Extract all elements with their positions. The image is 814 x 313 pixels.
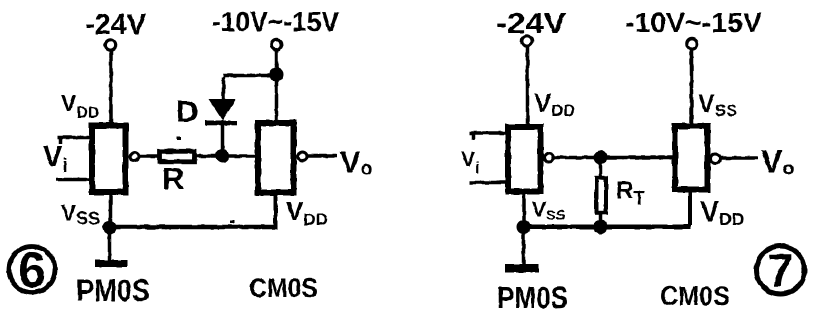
terminal -24V (left): [105, 40, 115, 50]
junction VSS node (left fig): [103, 221, 117, 235]
terminal -24V (right): [522, 36, 532, 46]
wire Vi input top: [58, 136, 92, 140]
junction VSS node (right fig): [517, 220, 531, 234]
wire RT bottom to junction: [599, 213, 603, 222]
wire node B down to RT: [599, 163, 603, 178]
inverter U3 PMOS body: [508, 127, 541, 192]
inverter U1 PMOS body: [92, 126, 126, 193]
wire node A up to diode cathode: [221, 124, 225, 151]
wire terminal to CMOS top (right): [690, 50, 694, 126]
wire -24V terminal to PMOS top (right): [526, 47, 530, 127]
junction node A: [216, 149, 230, 163]
terminal -10V~-15V (right): [687, 39, 697, 49]
inversion bubble U2 output: [298, 152, 307, 161]
svg-text:R: R: [162, 161, 184, 196]
junction node B: [594, 151, 608, 165]
figure number 6 circle: [9, 247, 55, 293]
wire bottom rail (left fig): [109, 225, 278, 230]
wire U2 output to Vo: [308, 154, 338, 158]
scan speck near D: [177, 137, 181, 140]
resistor RT: [597, 178, 607, 213]
wire PMOS VSS down to junction: [109, 192, 113, 222]
svg-text:-10V~-15V: -10V~-15V: [625, 7, 762, 38]
wire node B to CMOS input: [606, 156, 674, 160]
inversion bubble U3 output: [545, 153, 554, 162]
ground (left fig): [95, 260, 127, 267]
svg-text:D: D: [176, 94, 198, 129]
resistor R: [160, 151, 195, 162]
svg-text:CM0S: CM0S: [249, 273, 318, 303]
inverter U4 CMOS body: [675, 126, 708, 190]
wire U3 output to node B: [554, 156, 596, 160]
wire node A to CMOS input: [228, 154, 257, 158]
terminal -10V~-15V (left): [271, 39, 281, 49]
svg-text:7: 7: [768, 244, 794, 296]
wire CMOS bottom down (right): [688, 190, 692, 226]
inversion bubble U1 output: [130, 152, 139, 161]
wire Vi input top (right): [470, 131, 506, 135]
wire resistor to node A: [195, 154, 218, 158]
wire Vi input bottom (right): [470, 181, 506, 185]
figure number 7 circle: [757, 246, 805, 294]
svg-text:6: 6: [18, 242, 46, 298]
wire junction to ground: [108, 233, 112, 261]
wire terminal to CMOS top: [275, 50, 279, 122]
inversion bubble U4 output: [711, 154, 720, 163]
diode D cathode bar: [205, 121, 237, 126]
ground (right fig): [505, 264, 539, 273]
svg-text:-24V: -24V: [496, 8, 567, 40]
wire diode anode up: [222, 77, 226, 100]
inverter U2 CMOS body: [258, 123, 294, 193]
wire junction to ground (right): [522, 233, 526, 265]
svg-text:-10V~-15V: -10V~-15V: [212, 6, 339, 37]
wire CMOS bottom down: [274, 193, 278, 226]
svg-text:PM0S: PM0S: [497, 280, 568, 313]
svg-text:CM0S: CM0S: [660, 281, 730, 311]
scan speck on left bottom rail: [230, 220, 235, 223]
wire PMOS VSS down (right): [522, 192, 526, 223]
wire diode branch horizontal to supply node: [223, 74, 277, 78]
diode D anode triangle: [209, 99, 237, 121]
svg-text:-24V: -24V: [85, 9, 147, 41]
junction node supply (left fig): [270, 68, 284, 82]
junction RT bottom: [594, 220, 608, 234]
wire U4 output to Vo (right): [721, 156, 758, 160]
wire bottom rail (right fig): [523, 225, 691, 230]
wire -24V terminal to PMOS VDD pin: [109, 51, 113, 125]
svg-text:PM0S: PM0S: [76, 272, 150, 308]
wire bubble to resistor R: [140, 154, 160, 158]
wire Vi input bottom: [56, 178, 92, 182]
